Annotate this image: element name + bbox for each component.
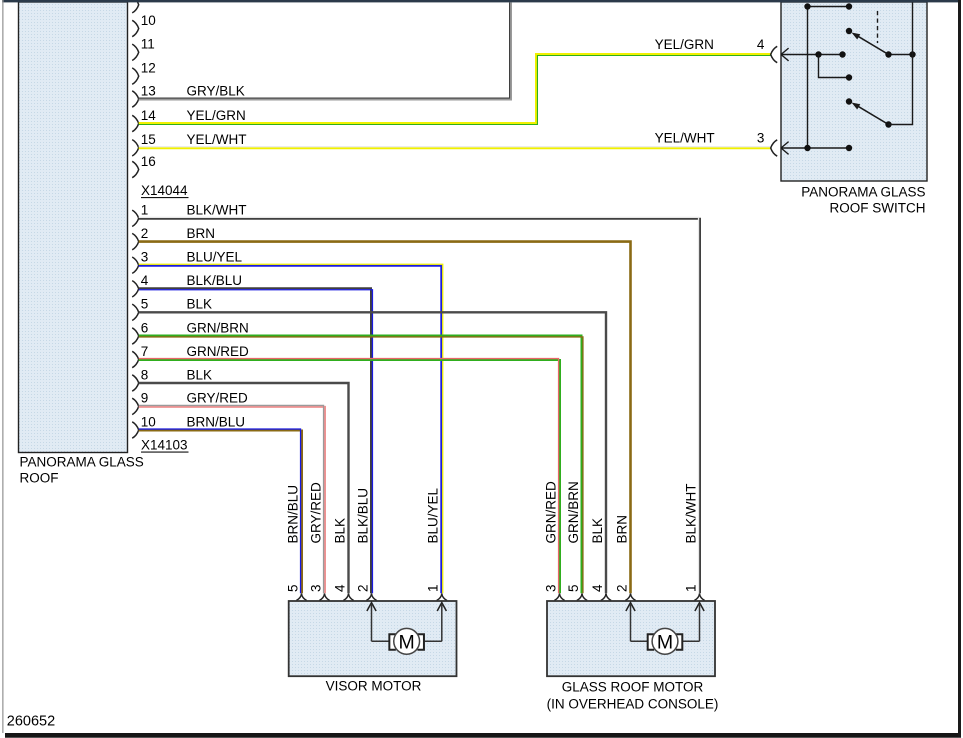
motor pin number 2	[355, 584, 370, 592]
switch dashed coupling line	[877, 11, 879, 43]
svg-text:ROOF: ROOF	[20, 471, 59, 486]
rotated wire label GRY/RED	[308, 482, 323, 544]
wire label YEL/WHT at switch	[655, 130, 715, 145]
connector X14044 label	[141, 183, 189, 198]
svg-text:BRN/BLU: BRN/BLU	[285, 485, 300, 544]
switch arm 2	[852, 103, 892, 128]
wire GRY/BLK from X14044 pin13 to top	[139, 3, 511, 100]
connector X14103 pin 10 terminal	[132, 414, 156, 438]
switch contact lower throw	[846, 98, 852, 104]
connector X14103 pin 5 terminal	[132, 297, 148, 321]
motor terminal arc at x441.8	[437, 594, 447, 601]
motor terminal arc at x559.5	[554, 594, 564, 601]
rotated wire label BLK	[332, 518, 347, 544]
svg-text:GRN/BRN: GRN/BRN	[187, 320, 249, 335]
wire BLU/YEL pin3 to visor motor pin1	[139, 264, 443, 593]
wire BRN pin2 to glass roof motor pin2	[139, 242, 631, 594]
visor motor label	[326, 679, 422, 694]
svg-text:2: 2	[355, 584, 370, 592]
wire label GRY/BLK pin13	[187, 83, 245, 98]
page border bottom	[5, 733, 961, 738]
connector X14103 pin 4 terminal	[132, 273, 149, 297]
svg-text:X14044: X14044	[141, 183, 188, 198]
wire BLK/WHT pin1 to glass roof motor pin1	[139, 217, 700, 593]
connector X14044 pin top terminal	[132, 0, 139, 13]
rotated wire label BLU/YEL	[426, 487, 441, 543]
wire label GRN/BRN pin6	[187, 320, 249, 335]
motor terminal arc at x582.0	[577, 594, 587, 601]
rotated wire label GRN/RED	[543, 481, 558, 544]
svg-text:13: 13	[141, 83, 156, 98]
svg-text:(IN OVERHEAD CONSOLE): (IN OVERHEAD CONSOLE)	[547, 697, 719, 712]
wire label YEL/GRN at switch	[655, 37, 714, 52]
svg-text:11: 11	[141, 37, 155, 52]
visor motor box	[289, 601, 457, 676]
svg-text:GLASS ROOF MOTOR: GLASS ROOF MOTOR	[562, 680, 704, 695]
svg-text:2: 2	[141, 226, 149, 241]
svg-text:X14103: X14103	[141, 438, 188, 453]
connector X14103 pin 8 terminal	[132, 367, 148, 391]
svg-text:1: 1	[141, 203, 149, 218]
wire label YEL/WHT pin15	[187, 132, 247, 147]
svg-text:M: M	[657, 631, 673, 653]
svg-text:YEL/WHT: YEL/WHT	[187, 132, 247, 147]
svg-text:BRN: BRN	[187, 226, 216, 241]
switch pin 3 number	[757, 130, 765, 145]
svg-text:7: 7	[141, 344, 149, 359]
svg-text:BRN/BLU: BRN/BLU	[187, 414, 246, 429]
wire label YEL/GRN pin14	[187, 108, 246, 123]
motor pin number 4	[590, 584, 605, 592]
wire label BLK/WHT pin1	[187, 203, 247, 218]
wire BRN/BLU pin10 to visor motor pin5	[139, 429, 302, 593]
svg-text:PANORAMA GLASS: PANORAMA GLASS	[801, 185, 925, 200]
svg-text:GRN/RED: GRN/RED	[187, 344, 250, 359]
svg-text:4: 4	[141, 273, 149, 288]
connector X14044 pin 11 terminal	[132, 37, 155, 61]
switch internal top link	[804, 3, 852, 9]
switch pin 3 terminal bracket	[771, 140, 778, 156]
svg-text:BLK: BLK	[590, 518, 605, 544]
connector X14103 pin 1 terminal	[132, 203, 148, 227]
switch pole link pin4 row	[885, 51, 915, 57]
motor terminal arc at x324.5	[319, 594, 329, 601]
svg-text:6: 6	[141, 320, 149, 335]
glass roof motor label	[547, 680, 719, 712]
svg-text:10: 10	[141, 414, 156, 429]
svg-text:4: 4	[757, 37, 765, 52]
svg-text:4: 4	[590, 584, 605, 592]
wire label BRN pin2	[187, 226, 216, 241]
wire label BRN/BLU pin10	[187, 414, 246, 429]
svg-text:YEL/WHT: YEL/WHT	[655, 130, 715, 145]
panorama glass roof switch box	[781, 2, 927, 181]
switch contact upper throw	[846, 28, 852, 34]
motor pin number 3	[543, 584, 558, 592]
connector X14103 pin 6 terminal	[132, 320, 148, 344]
svg-text:260652: 260652	[7, 714, 55, 730]
svg-text:1: 1	[683, 584, 698, 592]
wire BLK/BLU pin4 to visor motor pin2	[139, 288, 373, 593]
motor pin number 5	[566, 584, 581, 592]
wire GRY/RED pin9 to visor motor pin3	[139, 405, 325, 593]
svg-text:8: 8	[141, 367, 149, 382]
switch arm 1	[852, 33, 889, 55]
svg-text:GRN/RED: GRN/RED	[543, 481, 558, 544]
wire BLK pin5 to glass roof motor pin4	[139, 312, 606, 593]
switch pin3 input line with arrow	[781, 142, 852, 155]
svg-text:BLK/BLU: BLK/BLU	[187, 273, 243, 288]
wire label GRY/RED pin9	[187, 391, 249, 406]
svg-text:3: 3	[141, 250, 149, 265]
wire label BLK pin5	[187, 297, 213, 312]
connector X14103 pin 9 terminal	[132, 391, 148, 415]
switch L link from pin4 to lower throw	[819, 55, 853, 81]
svg-text:M: M	[399, 631, 415, 653]
svg-text:VISOR MOTOR: VISOR MOTOR	[326, 679, 422, 694]
motor terminal arc at x630.5	[625, 594, 635, 601]
svg-text:GRY/RED: GRY/RED	[187, 391, 249, 406]
wire YEL/GRN from X14044 pin14 to roof switch pin4	[139, 54, 771, 125]
panorama glass roof label	[20, 455, 144, 486]
svg-text:5: 5	[141, 297, 149, 312]
rotated wire label BLK/WHT	[683, 483, 698, 543]
wire label BLK pin8	[187, 367, 213, 382]
motor terminal arc at x301.5	[296, 594, 306, 601]
switch right feed link	[889, 2, 913, 125]
svg-text:GRN/BRN: GRN/BRN	[566, 481, 581, 543]
connector X14103 pin 3 terminal	[132, 250, 148, 274]
connector X14044 pin 10 terminal	[132, 13, 156, 37]
rotated wire label BRN	[614, 515, 629, 544]
connector X14044 pin 16 terminal	[132, 154, 156, 178]
motor pin number 5	[285, 584, 300, 592]
svg-text:YEL/GRN: YEL/GRN	[655, 37, 714, 52]
motor pin number 3	[308, 584, 323, 592]
svg-text:5: 5	[285, 584, 300, 592]
svg-text:BLK/WHT: BLK/WHT	[683, 483, 698, 543]
switch pin4 input line with arrow	[781, 48, 846, 61]
connector X14103 pin 7 terminal	[132, 344, 148, 368]
wire YEL/WHT from X14044 pin15 to roof switch pin3	[139, 147, 771, 149]
svg-text:YEL/GRN: YEL/GRN	[187, 108, 246, 123]
svg-text:12: 12	[141, 60, 156, 75]
connector X14044 pin 14 terminal	[132, 108, 156, 132]
svg-text:PANORAMA GLASS: PANORAMA GLASS	[20, 455, 144, 470]
motor pin number 4	[332, 584, 347, 592]
wire GRN/RED pin7 to glass roof motor pin3	[139, 359, 560, 594]
roof switch label	[801, 185, 925, 216]
svg-text:GRY/BLK: GRY/BLK	[187, 83, 245, 98]
switch internal bus vertical	[807, 7, 809, 149]
svg-text:9: 9	[141, 391, 149, 406]
connector X14103 label	[141, 438, 189, 453]
svg-text:3: 3	[757, 130, 765, 145]
svg-text:GRY/RED: GRY/RED	[308, 482, 323, 544]
connector X14044 pin 13 terminal	[132, 83, 156, 107]
rotated wire label BLK	[590, 518, 605, 544]
svg-text:3: 3	[308, 584, 323, 592]
page border right	[958, 0, 961, 737]
motor pin number 2	[614, 584, 629, 592]
wire label GRN/RED pin7	[187, 344, 250, 359]
svg-text:2: 2	[614, 584, 629, 592]
svg-text:4: 4	[332, 584, 347, 592]
motor terminal arc at x348.5	[343, 594, 353, 601]
motor pin number 1	[426, 584, 441, 592]
rotated wire label BRN/BLU	[285, 485, 300, 544]
svg-text:14: 14	[141, 108, 157, 123]
rotated wire label GRN/BRN	[566, 481, 581, 543]
page border top	[2, 0, 961, 2]
wire GRN/BRN pin6 to glass roof motor pin5	[139, 336, 583, 594]
page border left	[2, 0, 3, 733]
switch pin 4 terminal bracket	[771, 46, 778, 62]
rotated wire label BLK/BLU	[355, 488, 370, 544]
svg-text:3: 3	[543, 584, 558, 592]
svg-text:BLK: BLK	[187, 297, 213, 312]
svg-text:10: 10	[141, 13, 156, 28]
motor terminal arc at x606.0	[601, 594, 611, 601]
svg-text:BLK/WHT: BLK/WHT	[187, 203, 247, 218]
motor terminal arc at x699.5	[694, 594, 704, 601]
connector X14103 pin 2 terminal	[132, 226, 148, 250]
panorama glass roof control unit box	[19, 2, 128, 453]
svg-text:BLU/YEL: BLU/YEL	[426, 487, 441, 543]
svg-text:15: 15	[141, 132, 156, 147]
connector X14044 pin 12 terminal	[132, 60, 156, 84]
svg-text:1: 1	[426, 584, 441, 592]
svg-text:BLU/YEL: BLU/YEL	[187, 250, 243, 265]
motor pin number 1	[683, 584, 698, 592]
svg-text:16: 16	[141, 154, 156, 169]
svg-text:BLK: BLK	[187, 367, 213, 382]
wire label BLU/YEL pin3	[187, 250, 243, 265]
wire label BLK/BLU pin4	[187, 273, 243, 288]
switch pin 4 number	[757, 37, 765, 52]
svg-text:BLK: BLK	[332, 518, 347, 544]
svg-text:BRN: BRN	[614, 515, 629, 544]
sheet number 260652	[7, 714, 55, 730]
svg-text:ROOF SWITCH: ROOF SWITCH	[830, 201, 926, 216]
connector X14044 pin 15 terminal	[132, 132, 156, 156]
svg-text:BLK/BLU: BLK/BLU	[355, 488, 370, 544]
wire BLK pin8 to visor motor pin4	[139, 383, 349, 593]
motor terminal arc at x371.5	[366, 594, 376, 601]
svg-text:5: 5	[566, 584, 581, 592]
glass roof motor box	[547, 601, 715, 676]
